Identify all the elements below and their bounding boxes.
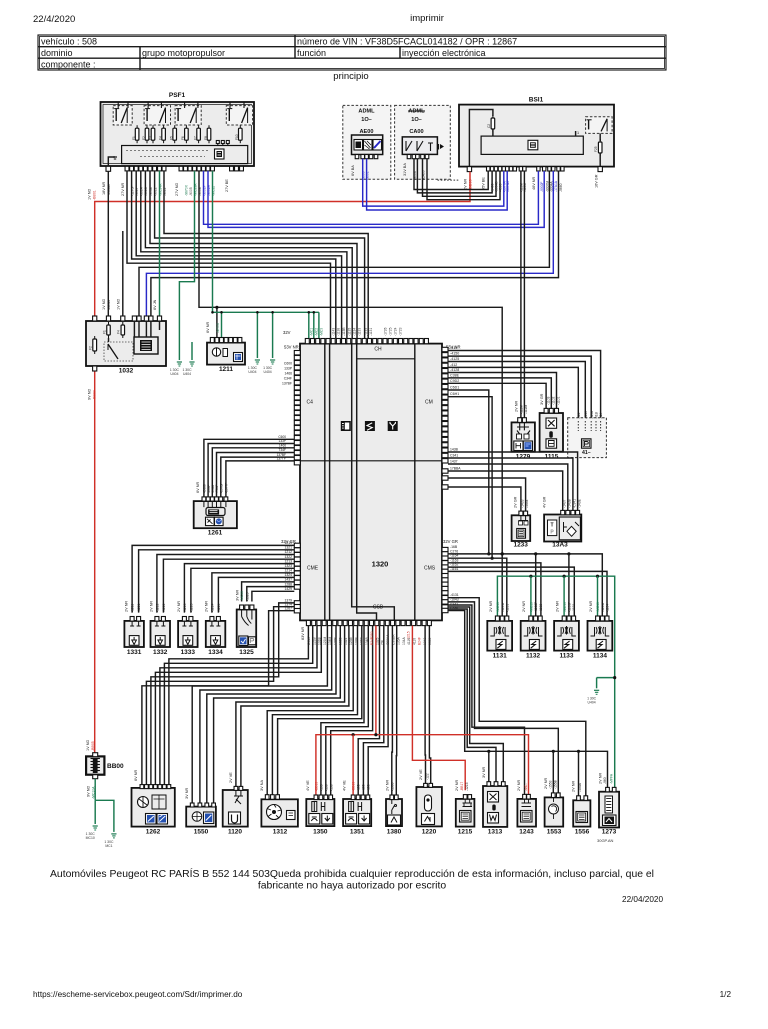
ignition coil 1131	[487, 621, 512, 651]
svg-text:CM: CM	[425, 400, 433, 406]
1279 icon blue display	[523, 441, 532, 451]
wires 1320 right to 1233 (2)	[448, 478, 526, 511]
svg-text:2V NR: 2V NR	[572, 781, 576, 792]
wire 1320 to 1131 pin3	[448, 558, 507, 616]
1320 icon S	[365, 421, 375, 431]
svg-text:-MC3: -MC3	[320, 328, 324, 336]
1312 pins	[265, 795, 269, 800]
svg-text:-MC1: -MC1	[309, 328, 313, 336]
wire stub 1032 pin3	[122, 231, 124, 316]
svg-text:133B: 133B	[354, 636, 358, 645]
svg-text:1351: 1351	[350, 829, 365, 836]
fan 1320 right to 1556 pin2	[448, 598, 586, 796]
svg-text:-1133: -1133	[358, 328, 362, 336]
1320 top pin comb	[305, 339, 309, 344]
svg-text:1214: 1214	[284, 569, 292, 573]
BSI1 relay (dashed)	[586, 117, 613, 134]
svg-text:1321: 1321	[284, 546, 292, 550]
1134 transformer icon	[591, 627, 610, 636]
1380 pins	[390, 795, 394, 800]
svg-text:-MC13: -MC13	[563, 602, 567, 612]
sensor 1120	[223, 790, 248, 827]
1032 top pins	[93, 316, 97, 321]
svg-text:46V NR: 46V NR	[532, 176, 536, 190]
svg-text:4V VE: 4V VE	[306, 780, 310, 791]
svg-text:1213: 1213	[284, 559, 292, 563]
svg-text:-414: -414	[599, 412, 603, 419]
svg-text:-136: -136	[324, 784, 328, 791]
wire blue pair PSF1 to BSI1	[204, 171, 539, 224]
svg-text:C6H1: C6H1	[450, 392, 459, 396]
1312 icon small	[287, 811, 296, 820]
injector 1333	[178, 621, 198, 647]
svg-text:-4150: -4150	[450, 352, 459, 356]
wire green drops ECU top	[308, 312, 310, 338]
1134 pins	[596, 616, 600, 621]
svg-text:124B: 124B	[360, 636, 364, 645]
svg-text:4V GR: 4V GR	[543, 496, 547, 508]
svg-text:-138: -138	[367, 784, 371, 791]
svg-text:32V: 32V	[283, 330, 291, 335]
1333 icon	[183, 636, 193, 646]
svg-text:-1134: -1134	[606, 604, 610, 612]
svg-text:6V NR: 6V NR	[134, 770, 138, 781]
dotted link CA00 to BSI1	[438, 179, 460, 181]
svg-text:-1213: -1213	[183, 603, 187, 612]
svg-text:F2: F2	[142, 136, 146, 140]
svg-text:1353: 1353	[428, 637, 432, 645]
svg-text:1429: 1429	[284, 587, 292, 591]
1320 bottom pin comb	[306, 620, 310, 625]
header table	[38, 35, 666, 70]
svg-text:31V BA: 31V BA	[403, 163, 407, 176]
svg-text:CA00: CA00	[409, 129, 423, 135]
1351 solenoid icons	[349, 802, 354, 812]
svg-text:-155A: -155A	[578, 782, 582, 792]
dashed box CA00	[395, 105, 451, 179]
svg-text:1V ND: 1V ND	[102, 299, 106, 310]
1261 icon pair	[206, 517, 215, 525]
1211 sensor icon	[212, 348, 220, 356]
bus drop 1553 pin1	[552, 750, 555, 753]
1325 icon blue	[239, 636, 248, 646]
svg-text:-MC13: -MC13	[496, 602, 500, 612]
svg-text:1550: 1550	[194, 829, 209, 836]
svg-text:ADML: ADML	[408, 109, 425, 115]
sensor 1211	[207, 343, 245, 365]
PSF1 fuse F1	[135, 128, 139, 140]
svg-text:U404: U404	[248, 370, 256, 374]
1273 pedal icon	[605, 796, 613, 813]
svg-text:53V NR: 53V NR	[284, 345, 299, 350]
svg-text:-41B: -41B	[595, 412, 599, 419]
wires 1320 bottom to 1350 (3 black)	[321, 626, 364, 795]
1325 pins	[240, 605, 244, 610]
svg-text:C34F: C34F	[284, 377, 292, 381]
junction unit 1032	[86, 321, 166, 366]
1279 icon H	[514, 441, 523, 451]
oxygen sensor 1220	[416, 787, 442, 826]
injector 1334	[206, 621, 226, 647]
svg-text:-1135: -1135	[348, 328, 352, 336]
splice ground MC33A	[178, 352, 180, 360]
svg-text:3V NA: 3V NA	[260, 780, 264, 791]
wire 1211 pin1 to long black	[216, 307, 218, 342]
svg-text:4115: 4115	[407, 638, 411, 645]
1262 icon blue pair	[146, 814, 157, 825]
svg-text:1334: 1334	[208, 649, 223, 656]
svg-text:1V ND: 1V ND	[86, 740, 90, 751]
1133 spark icon	[563, 640, 573, 650]
1350 solenoid icons	[312, 802, 317, 812]
1262 pins	[140, 785, 144, 789]
1132 transformer icon	[524, 627, 543, 636]
svg-text:-BB05: -BB05	[91, 741, 95, 751]
svg-text:-MPFA: -MPFA	[610, 773, 614, 784]
svg-text:1243: 1243	[519, 829, 534, 836]
svg-text:BB00: BB00	[107, 763, 124, 770]
1320 right pin comb CMS coils	[442, 547, 448, 551]
svg-text:-1101: -1101	[557, 396, 561, 405]
svg-text:-MC2: -MC2	[314, 328, 318, 336]
1261 pins	[202, 497, 206, 501]
BSI1 internal feed wire	[469, 110, 493, 167]
svg-text:MC1: MC1	[105, 844, 112, 848]
svg-text:-1222: -1222	[162, 603, 166, 612]
sensor 1312	[261, 799, 298, 826]
splice ground MC34A	[191, 349, 193, 360]
svg-text:-414: -414	[450, 346, 457, 350]
svg-text:2V NR: 2V NR	[599, 773, 603, 784]
svg-text:F1: F1	[132, 136, 136, 140]
svg-text:-1161: -1161	[450, 567, 459, 571]
1261 internal bracket	[204, 501, 226, 507]
svg-text:-1131: -1131	[505, 604, 509, 612]
PSF1 fuse F2	[145, 128, 149, 140]
svg-text:-1131: -1131	[369, 328, 373, 336]
BB00 pins	[93, 753, 98, 757]
svg-text:1279: 1279	[516, 454, 531, 461]
svg-text:1322: 1322	[284, 555, 292, 559]
1273 pins	[606, 787, 610, 791]
svg-text:U404: U404	[264, 370, 272, 374]
1553 sensor icon	[549, 804, 559, 814]
svg-text:1331: 1331	[127, 649, 142, 656]
1313 icon W	[488, 813, 499, 824]
svg-text:-1134P: -1134P	[601, 601, 605, 612]
dashed box ADML	[343, 105, 391, 179]
svg-text:1032: 1032	[119, 368, 134, 375]
1233 internal connector	[519, 515, 529, 520]
svg-text:F25: F25	[594, 146, 598, 152]
svg-text:número de VIN : VF38D5FCACL014: número de VIN : VF38D5FCACL014182 / OPR …	[297, 37, 517, 47]
svg-text:-143E: -143E	[578, 498, 582, 508]
svg-text:-MC10A: -MC10A	[92, 786, 96, 799]
svg-text:F5: F5	[170, 136, 174, 140]
svg-text:-MC..: -MC..	[524, 783, 528, 791]
svg-text:-9670X: -9670X	[184, 184, 188, 196]
svg-text:1380: 1380	[387, 829, 402, 836]
1320 left pin comb upper C4	[294, 351, 300, 355]
1220 probe icon	[425, 795, 432, 811]
svg-text:-1133P: -1133P	[568, 601, 572, 612]
wires 1320 bottom to 1380 (2)	[391, 626, 394, 795]
svg-text:30GP.AN: 30GP.AN	[597, 838, 613, 843]
PSF1 small pins above bar	[217, 141, 219, 146]
wire 1320 to 1132 pin3	[448, 563, 541, 616]
svg-text:1233: 1233	[513, 542, 528, 549]
1320 internal partitions	[324, 344, 326, 621]
41-- icon P	[582, 439, 592, 448]
BSI1 fuse F3	[491, 118, 495, 129]
svg-text:-113B: -113B	[342, 327, 346, 336]
svg-text:imprimir: imprimir	[410, 13, 444, 24]
BSI1 bottom pin group 1	[487, 167, 490, 171]
PSF1 fuse F8	[207, 128, 211, 140]
1211 icon blue	[234, 353, 243, 362]
svg-text:2V NR: 2V NR	[517, 780, 521, 791]
svg-text:1325: 1325	[239, 649, 254, 656]
svg-text:F7: F7	[193, 136, 197, 140]
svg-text:-4150: -4150	[590, 411, 594, 419]
1134 spark icon	[596, 640, 606, 650]
svg-text:-1726: -1726	[384, 327, 388, 336]
svg-text:1133: 1133	[559, 653, 573, 660]
svg-text:-112M: -112M	[524, 404, 528, 414]
1233 icon theta	[517, 529, 526, 539]
1332 coil marks	[155, 621, 166, 626]
1233 pins	[519, 511, 523, 515]
1553 pins	[551, 793, 555, 798]
ignition module 1115	[540, 413, 563, 452]
1320 left pin comb CME	[294, 543, 300, 547]
relay box CA00	[402, 137, 437, 155]
accelerator pedal 1273	[599, 792, 619, 828]
1132 pins	[529, 616, 533, 621]
svg-text:13A3: 13A3	[552, 542, 568, 549]
svg-text:1O–: 1O–	[411, 117, 422, 123]
svg-text:1/2: 1/2	[720, 990, 732, 999]
PSF1 internal ground	[108, 157, 115, 166]
svg-text:PSF1: PSF1	[169, 92, 186, 99]
svg-text:2V NR: 2V NR	[149, 601, 153, 612]
1556 icon	[576, 812, 588, 823]
svg-text:1211: 1211	[219, 366, 233, 373]
PSF1 fuse F7	[197, 128, 201, 140]
1550 pins	[190, 803, 194, 807]
wire CA00 to BSI1 (4th)	[427, 159, 500, 200]
PSF1 fuse F10	[239, 128, 243, 140]
1334 icon	[211, 636, 221, 646]
svg-text:función: función	[297, 48, 326, 58]
svg-text:123B: 123B	[349, 636, 353, 645]
1032 relay (dotted)	[104, 342, 133, 361]
svg-text:C341: C341	[450, 454, 458, 458]
svg-text:9V ND: 9V ND	[88, 389, 92, 400]
svg-text:-1134: -1134	[353, 328, 357, 336]
1331 coil marks	[130, 621, 141, 626]
1556 pins	[577, 796, 581, 801]
wire green PSF1 to splice	[179, 171, 194, 352]
wire BSI1 to 1032 black upper	[139, 171, 549, 316]
svg-text:1262: 1262	[146, 829, 161, 836]
svg-text:121M: 121M	[323, 636, 327, 645]
svg-text:3V GR: 3V GR	[540, 393, 544, 405]
svg-text:grupo motopropulsor: grupo motopropulsor	[142, 48, 225, 58]
injector 1331	[124, 621, 143, 647]
svg-text:134M: 134M	[328, 636, 332, 645]
svg-text:134B: 134B	[365, 636, 369, 645]
svg-text:-1102: -1102	[552, 396, 556, 405]
1313 pins	[487, 782, 491, 786]
svg-text:143?: 143?	[284, 578, 292, 582]
svg-text:1324: 1324	[284, 573, 292, 577]
svg-text:27V BE: 27V BE	[225, 179, 229, 192]
svg-text:-C341: -C341	[573, 499, 577, 508]
svg-text:1556: 1556	[575, 829, 590, 836]
svg-text:131B: 131B	[318, 636, 322, 645]
svg-text:1313: 1313	[488, 829, 503, 836]
1215 pins	[463, 795, 467, 799]
svg-text:https://escheme-servicebox.peu: https://escheme-servicebox.peugeot.com/S…	[33, 990, 243, 999]
svg-text:2V NR: 2V NR	[464, 179, 468, 190]
svg-text:C90AA: C90AA	[386, 634, 390, 645]
svg-text:-155B: -155B	[553, 779, 557, 789]
svg-text:1466: 1466	[284, 372, 292, 376]
wire PSF1 to coil bus junction (long black via y307)	[199, 171, 502, 555]
PSF1 fuse F5	[173, 128, 177, 140]
svg-text:-1214: -1214	[211, 603, 215, 612]
PSF1 relay K2 (dashed)	[144, 106, 170, 125]
svg-text:-BB07: -BB07	[93, 390, 97, 400]
svg-text:6V JN: 6V JN	[153, 299, 157, 310]
svg-text:2V NR: 2V NR	[556, 601, 560, 612]
svg-text:1350: 1350	[313, 829, 328, 836]
wire BSI1 to 1032 black lower	[151, 171, 559, 316]
svg-text:2V NR: 2V NR	[125, 601, 129, 612]
svg-text:C90BA: C90BA	[391, 634, 395, 645]
svg-text:-135: -135	[320, 784, 324, 791]
BSI1 internal module icon	[528, 140, 538, 150]
svg-text:1115: 1115	[545, 454, 559, 461]
svg-text:1324: 1324	[344, 637, 348, 645]
svg-text:fabricante no haya autorizado: fabricante no haya autorizado por escrit…	[258, 881, 447, 892]
fan 1320 right to 1313 pin2	[448, 609, 496, 782]
svg-text:-MC13: -MC13	[529, 602, 533, 612]
svg-text:1437: 1437	[450, 460, 458, 464]
svg-text:1212: 1212	[284, 550, 292, 554]
engine ECU 1320	[300, 344, 442, 621]
1550 icon blue	[204, 812, 214, 824]
svg-text:F1: F1	[102, 330, 106, 334]
svg-text:137TP: 137TP	[277, 457, 286, 461]
ignition coil 1133	[554, 621, 579, 651]
1380 icon	[388, 815, 401, 825]
injector 1332	[151, 621, 171, 647]
svg-text:U404: U404	[183, 372, 191, 376]
svg-text:134A: 134A	[402, 636, 406, 645]
svg-text:1: 1	[577, 131, 579, 135]
svg-text:-1325: -1325	[245, 592, 249, 601]
1132 spark icon	[529, 640, 539, 650]
svg-text:1288: 1288	[284, 582, 292, 586]
svg-text:U404: U404	[170, 372, 178, 376]
wire 1320 to 1134 pin3	[448, 571, 607, 616]
svg-text:componente :: componente :	[41, 60, 96, 70]
svg-text:-1132: -1132	[539, 604, 543, 612]
1333 coil marks	[182, 621, 193, 626]
1215 coil symbol	[463, 799, 473, 807]
svg-text:B24F: B24F	[418, 637, 422, 645]
svg-text:MC10: MC10	[86, 836, 95, 840]
1332 icon	[155, 636, 165, 646]
svg-text:-111M: -111M	[520, 405, 524, 414]
svg-text:-1043: -1043	[450, 597, 459, 601]
BSI1 pin 1 stub	[575, 131, 577, 136]
wire BSI1 to 1279 pair	[520, 171, 522, 418]
1220 pins	[424, 783, 428, 787]
svg-text:-1103: -1103	[547, 396, 551, 405]
svg-text:1220: 1220	[422, 829, 437, 836]
svg-text:1120: 1120	[228, 829, 242, 836]
wires 1320 left trio to 1262	[151, 603, 294, 785]
fan 1320 right to bottom bus	[448, 611, 608, 788]
svg-text:3V NR: 3V NR	[482, 767, 486, 778]
wire green PSF1 to 1032	[159, 171, 161, 316]
1313 icon X	[488, 792, 499, 803]
sensor unit 13A3	[544, 515, 581, 542]
wire BSI1 to 1032 CAN blue	[146, 171, 553, 316]
wires 1261 to 1320 left (6)	[204, 439, 294, 497]
svg-text:4V VE: 4V VE	[343, 780, 347, 791]
1320 icon grid	[341, 421, 351, 431]
battery negative green wires to ground	[94, 779, 96, 801]
svg-text:16V GR: 16V GR	[595, 174, 599, 188]
svg-text:2V NR: 2V NR	[544, 778, 548, 789]
svg-text:1267: 1267	[284, 606, 292, 610]
svg-text:-1133: -1133	[572, 604, 576, 612]
svg-text:1553: 1553	[547, 829, 562, 836]
svg-text:F3: F3	[148, 136, 152, 140]
CA00 horn icon	[440, 144, 444, 149]
1115 icon lower	[546, 439, 557, 448]
svg-text:2V NR: 2V NR	[386, 780, 390, 791]
svg-text:-1433: -1433	[521, 499, 525, 508]
wires 1320 right to 41-- (4)	[448, 351, 601, 422]
svg-text:-1723: -1723	[399, 327, 403, 336]
bus drop 1556 pin1	[577, 750, 580, 753]
1220 icon	[422, 814, 435, 825]
svg-text:2V NR: 2V NR	[522, 601, 526, 612]
svg-text:-1211: -1211	[131, 604, 135, 612]
svg-text:-960: -960	[603, 777, 607, 784]
sensor 1553	[545, 797, 564, 826]
svg-text:2V NR: 2V NR	[515, 401, 519, 412]
wire blue pair AE00 to BSI1	[363, 159, 504, 206]
1262 pump icon	[138, 797, 149, 808]
svg-text:4110: 4110	[412, 638, 416, 645]
1350 pins	[314, 795, 318, 800]
1215 icon	[460, 811, 472, 823]
1351 pins	[351, 795, 355, 800]
svg-text:C4M7: C4M7	[307, 636, 311, 645]
red wire 1320 to 1215	[412, 626, 465, 791]
svg-text:3V NR: 3V NR	[236, 590, 240, 601]
1131 spark icon	[496, 640, 506, 650]
1032 bottom pin	[93, 366, 97, 371]
sensor 1313	[483, 786, 507, 827]
wires 1320 right to 1115 (3)	[448, 373, 557, 409]
